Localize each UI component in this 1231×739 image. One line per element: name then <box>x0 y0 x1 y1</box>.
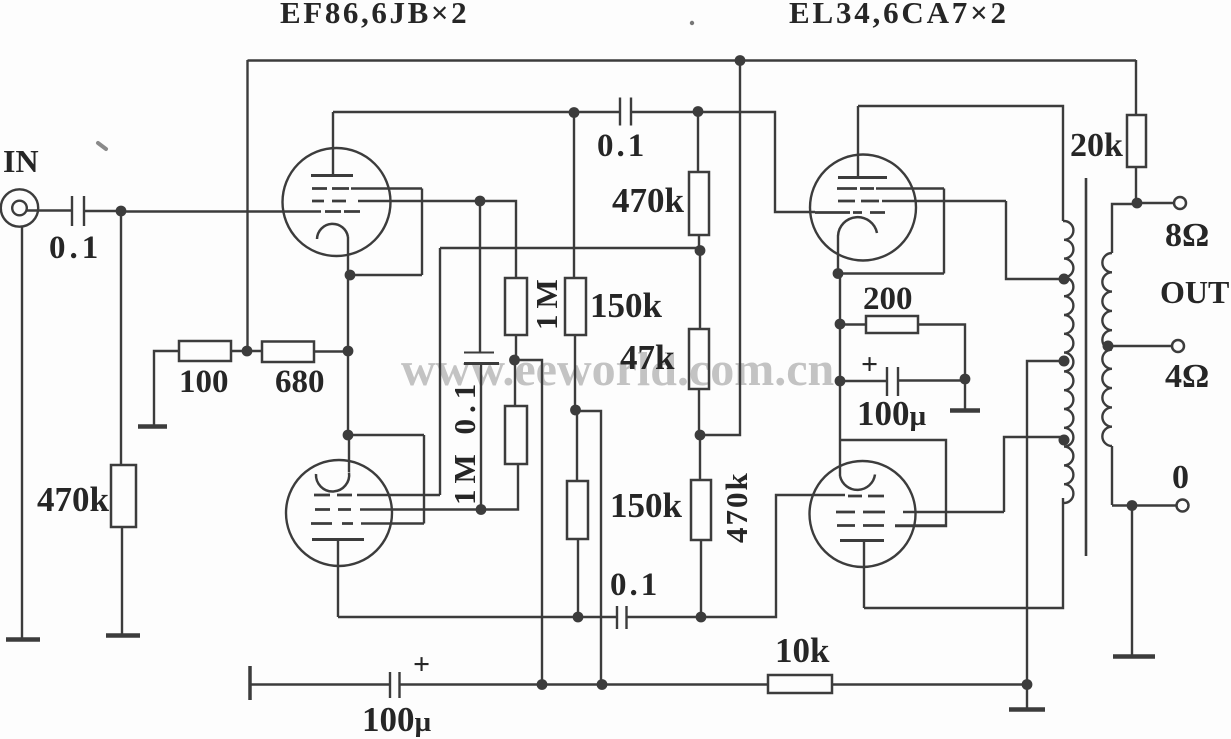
junction dot V2 cathode node <box>343 430 354 441</box>
wire cathode to g3 drop <box>838 272 944 274</box>
wire V4 plate to transformer bottom <box>864 498 1063 608</box>
V3 grid g2 dashes <box>838 200 879 203</box>
ground bar under 470k <box>106 633 140 638</box>
V2 grid g2 dashes <box>315 508 351 511</box>
V2 grid g1 dashes <box>314 494 352 497</box>
resistor 20k <box>1127 115 1146 167</box>
svg-text:47k: 47k <box>620 338 675 377</box>
svg-text:1M: 1M <box>529 273 564 330</box>
junction dot screen feed <box>537 679 548 690</box>
ground bar B+ node <box>1009 707 1045 712</box>
resistor 200 <box>866 316 918 333</box>
wire 0.1 to EL34 grid corner <box>631 112 815 212</box>
junction dot screen mid node <box>509 355 520 366</box>
wire 150k upper to mid <box>574 335 576 411</box>
wire 470k upper top lead <box>697 112 699 173</box>
wire top rail to 20k <box>1135 60 1137 115</box>
resistor 150k lower <box>567 481 588 539</box>
junction dot B+ entry <box>1022 679 1033 690</box>
wire 1M lower to g2 line <box>481 464 518 510</box>
V3 g2 solid extension <box>882 200 1006 202</box>
stray speck top middle <box>690 21 694 25</box>
wire V2 cathode node to g3 drop <box>348 434 424 436</box>
V3 grid g3 dashes <box>837 187 874 190</box>
bottom B+ rail terminal bar <box>248 666 252 700</box>
V3 plate bar <box>838 176 887 179</box>
terminal 8ohm <box>1174 197 1186 209</box>
branch cathode bus to V4 g3 loop <box>840 440 946 526</box>
secondary bottom lead <box>1111 446 1113 505</box>
wire jack down to ground <box>21 227 23 638</box>
V3 cathode lead down <box>837 236 839 274</box>
capacitor 0.1 screen bypass lead <box>479 201 481 352</box>
resistor 470k input <box>111 465 136 527</box>
wire 150k chain top <box>573 113 575 279</box>
wire 100u right <box>898 379 965 381</box>
junction dot 150k top node <box>569 107 580 118</box>
ground bar left of 100 <box>138 424 167 429</box>
junction dot 680 node <box>343 346 354 357</box>
transformer primary winding <box>1063 221 1073 503</box>
wire 470k to divider node <box>698 235 700 251</box>
wire 100 left to ground <box>154 351 179 425</box>
V2 plate bar <box>312 538 364 541</box>
junction dot 47k bottom node <box>695 430 706 441</box>
ground bar under jack <box>6 637 40 642</box>
bottom rail right segment <box>400 683 769 685</box>
wire 1M upper to mid node <box>515 335 517 360</box>
V2 cathode arc <box>316 473 349 492</box>
V4 grid g2 dashes <box>836 511 885 514</box>
ground bar cathode network <box>950 408 980 413</box>
wire 200 right to cap node <box>918 325 965 379</box>
junction dot 100/680 node <box>242 346 253 357</box>
junction dot on top rail <box>735 55 746 66</box>
capacitor C1 0.1 input <box>72 196 84 226</box>
svg-text:0.1: 0.1 <box>49 230 102 266</box>
V4 g3 solid extension <box>895 524 947 526</box>
svg-text:0: 0 <box>1172 459 1189 496</box>
junction dot 470k top node <box>693 106 704 117</box>
bottom rail after 10k <box>832 683 1027 685</box>
primary tap dot upper <box>1059 274 1070 285</box>
wire jack to C1 <box>27 209 72 211</box>
svg-text:1M 0.1: 1M 0.1 <box>447 378 482 505</box>
primary tap dot center B+ <box>1059 356 1070 367</box>
wire divider node to 47k <box>699 251 701 329</box>
input jack IN <box>1 189 38 226</box>
V3 g3 solid extension <box>876 187 944 189</box>
capacitor 0.1 coupling top <box>620 98 631 126</box>
wire screen node to 1M upper <box>480 201 516 278</box>
resistor 470k mid <box>689 172 709 235</box>
wire 680 node down to V2 cathode node <box>347 351 349 435</box>
wire to 8ohm terminal <box>1137 202 1173 204</box>
wire center tap to B+ drop <box>1027 361 1064 685</box>
wire 100-680 links <box>231 350 348 353</box>
wire 150k lower to y616 <box>577 539 579 617</box>
V3 cathode junction dot <box>833 268 844 279</box>
V3 grid g1 dashes <box>815 211 885 214</box>
junction dot 150k mid node <box>570 405 581 416</box>
junction dot 8ohm node <box>1132 198 1143 209</box>
wire cathode to g3 drop <box>350 274 422 276</box>
junction dot 150k bottom node <box>573 612 584 623</box>
svg-text:EL34,6CA7×2: EL34,6CA7×2 <box>789 0 1009 30</box>
svg-text:+: + <box>413 648 430 681</box>
svg-text:150k: 150k <box>610 486 683 525</box>
wire 0 tap to ground <box>1131 506 1133 656</box>
V1 g2 solid extension <box>358 200 480 202</box>
resistor 150k upper <box>565 278 586 335</box>
resistor 47k <box>689 329 709 389</box>
V3 cathode arc <box>838 217 877 236</box>
tube V1 EF86 circle <box>283 148 391 256</box>
wire V3 plate to transformer <box>858 106 1063 221</box>
V3 g3 drop to cathode <box>943 189 945 274</box>
svg-text:10k: 10k <box>775 631 830 670</box>
V2 g3 solid extension <box>361 522 424 524</box>
junction dot 0 tap <box>1127 500 1138 511</box>
V3 g2 to transformer tap <box>1006 201 1063 279</box>
V2 cathode lead up <box>348 435 350 472</box>
svg-text:0.1: 0.1 <box>610 567 660 603</box>
wire 20k to 8ohm node <box>1135 167 1137 203</box>
junction dot 150k feed <box>597 679 608 690</box>
junction dot V2 screen node <box>476 504 487 515</box>
V2 g1 solid extension <box>357 494 440 496</box>
wire node A to V1 grid <box>121 210 321 212</box>
V4 plate lead down <box>863 541 865 609</box>
svg-text:OUT: OUT <box>1160 274 1229 310</box>
V4 g2 to transformer tap <box>1004 437 1064 512</box>
svg-text:470k: 470k <box>37 480 110 519</box>
svg-text:20k: 20k <box>1070 127 1123 164</box>
capacitor 0.1 coupling bottom <box>617 606 627 629</box>
wire mid node down to 1M lower <box>514 360 516 406</box>
junction dot 470k lower bottom node <box>696 612 707 623</box>
stray mark top left <box>98 143 106 149</box>
V1 cathode lead down <box>347 237 349 275</box>
junction dot 100u left <box>835 376 846 387</box>
tube V4 EL34 circle <box>810 461 916 567</box>
V1 grid g1 dashes <box>325 210 360 213</box>
junction dot 200 left <box>835 319 846 330</box>
wire to ground <box>964 379 966 409</box>
V1 cathode arc <box>317 224 348 239</box>
resistor 1M upper <box>505 278 527 335</box>
plate rail y112 <box>333 111 620 113</box>
wire 47k to lower node <box>698 389 700 435</box>
wire node A down to R 470k <box>120 211 122 465</box>
wire B+ node to ground <box>1026 685 1028 709</box>
transformer secondary winding <box>1102 253 1112 446</box>
resistor 10k <box>768 675 832 693</box>
tube V3 EL34 circle <box>810 155 916 261</box>
top feedback rail <box>248 59 1137 61</box>
V1 screen node dot <box>475 196 486 207</box>
V4 cathode arc <box>840 475 875 490</box>
junction dot 100u right <box>960 374 971 385</box>
svg-text:+: + <box>861 348 878 381</box>
capacitor 100u PSU plates <box>390 672 400 698</box>
wire 0 tap <box>1112 504 1176 506</box>
wire B+/divider drop x741 <box>705 61 740 436</box>
primary tap dot lower <box>1059 435 1070 446</box>
wire node to 470k lower <box>699 435 701 480</box>
V2 plate lead down <box>337 540 339 618</box>
wire C1 to node A <box>84 210 121 212</box>
tube V2 EF86 circle <box>286 460 392 566</box>
resistor 1M lower <box>505 406 527 464</box>
V4 grid g1 dashes <box>848 495 884 498</box>
V1 g3 drop to cathode <box>421 189 423 276</box>
wire mid node right and down to B+ rail <box>576 411 602 685</box>
node A junction dot <box>116 206 127 217</box>
bottom rail left segment <box>250 683 390 685</box>
ground bar 0 tap <box>1113 654 1155 659</box>
svg-text:0.1: 0.1 <box>597 128 647 164</box>
V1 grid g3 dashes <box>312 187 349 190</box>
V1 grid g2 dashes <box>312 200 346 203</box>
svg-text:EF86,6JB×2: EF86,6JB×2 <box>280 0 469 30</box>
svg-text:470k: 470k <box>719 471 754 543</box>
V1 cathode junction dot <box>345 270 356 281</box>
wire mid node to B+ rail drop <box>515 360 543 685</box>
wire 0.1 bottom to EL34 V4 grid <box>627 495 846 617</box>
wire 150k mid to 150k lower <box>576 411 578 481</box>
wire top rail left drop <box>246 60 248 351</box>
svg-text:IN: IN <box>3 143 39 179</box>
svg-text:150k: 150k <box>590 286 663 325</box>
svg-text:8Ω: 8Ω <box>1165 217 1209 254</box>
terminal 0 <box>1177 500 1189 512</box>
resistor 680 <box>262 342 314 363</box>
wire 470k to ground <box>121 527 123 634</box>
V2 g2 solid extension <box>360 508 481 510</box>
secondary 4ohm tap dot <box>1103 341 1114 352</box>
svg-text:100: 100 <box>179 364 229 400</box>
svg-text:200: 200 <box>863 281 913 317</box>
wire 4ohm tap to terminal <box>1108 345 1171 347</box>
secondary top lead <box>1112 204 1138 253</box>
V2 grid g3 dashes <box>311 522 353 525</box>
V3 plate lead up <box>857 106 859 177</box>
shared cathode bus down <box>839 274 841 477</box>
terminal 4ohm <box>1172 340 1184 352</box>
V4 grid g3 dashes <box>837 524 884 527</box>
svg-text:100µ: 100µ <box>857 394 927 433</box>
wire 470k lower to y616 <box>700 540 702 617</box>
wire 100u left lead <box>840 380 887 382</box>
svg-text:680: 680 <box>275 364 325 400</box>
capacitor 0.1 screen plates <box>464 352 494 354</box>
V1 g3 solid extension <box>351 187 422 189</box>
V2 g3 drop <box>423 435 425 524</box>
divider line y248 <box>440 247 700 249</box>
capacitor 100u cathode plates <box>887 367 898 396</box>
wire cathode down to 680 node <box>347 275 349 351</box>
wire 200 left lead <box>840 323 866 325</box>
svg-text:100µ: 100µ <box>362 700 432 739</box>
V1 plate lead up <box>332 112 334 175</box>
resistor 470k lower <box>691 480 711 540</box>
wire V2 plate rail y616 <box>338 616 617 618</box>
svg-text:4Ω: 4Ω <box>1165 358 1209 395</box>
svg-text:470k: 470k <box>612 181 685 220</box>
V2 g1 drive drop from divider <box>439 248 441 495</box>
resistor 100 <box>179 341 231 361</box>
junction dot divider node <box>695 245 706 256</box>
transformer core line <box>1085 178 1088 556</box>
cap bottom lead to g2 node <box>480 364 482 510</box>
V4 plate bar <box>840 539 884 542</box>
V1 plate bar <box>311 174 353 177</box>
V4 g2 solid extension <box>903 511 1004 513</box>
